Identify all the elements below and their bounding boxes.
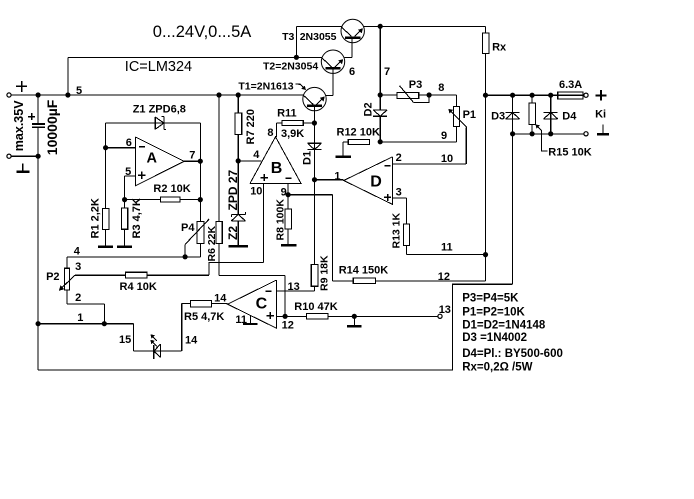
svg-text:P3: P3 xyxy=(409,79,422,91)
svg-text:Rx=0,2Ω /5W: Rx=0,2Ω /5W xyxy=(462,362,532,374)
svg-text:R11: R11 xyxy=(277,108,297,120)
svg-text:R6 22K: R6 22K xyxy=(206,225,218,261)
svg-text:R14 150K: R14 150K xyxy=(339,265,389,277)
svg-text:D3: D3 xyxy=(491,111,505,123)
svg-text:R5 4,7K: R5 4,7K xyxy=(184,311,224,323)
svg-text:D4=Pl.: BY500-600: D4=Pl.: BY500-600 xyxy=(462,348,563,360)
svg-text:A: A xyxy=(147,150,158,166)
svg-text:15: 15 xyxy=(119,334,131,346)
svg-text:11: 11 xyxy=(441,242,453,254)
svg-text:R1 2,2K: R1 2,2K xyxy=(90,198,102,238)
svg-text:7: 7 xyxy=(384,66,390,78)
svg-text:max.35V: max.35V xyxy=(12,100,26,151)
svg-text:2: 2 xyxy=(396,152,402,164)
svg-text:D3 =1N4002: D3 =1N4002 xyxy=(462,332,527,344)
svg-text:P4: P4 xyxy=(181,222,195,234)
svg-text:P3=P4=5K: P3=P4=5K xyxy=(462,293,519,305)
svg-text:3: 3 xyxy=(396,187,402,199)
svg-text:8: 8 xyxy=(438,82,444,94)
svg-text:Z1 ZPD6,8: Z1 ZPD6,8 xyxy=(133,104,186,116)
svg-text:12: 12 xyxy=(438,271,450,283)
svg-text:Rx: Rx xyxy=(492,41,507,53)
svg-text:R3 4,7K: R3 4,7K xyxy=(131,198,143,238)
svg-text:0...24V,0...5A: 0...24V,0...5A xyxy=(153,23,251,41)
svg-text:R12 10K: R12 10K xyxy=(337,127,380,139)
svg-text:13: 13 xyxy=(288,281,300,293)
svg-text:14: 14 xyxy=(185,334,198,346)
svg-text:10: 10 xyxy=(250,186,262,198)
svg-text:B: B xyxy=(271,160,283,177)
svg-text:6.3A: 6.3A xyxy=(559,79,582,91)
svg-text:4: 4 xyxy=(253,149,260,161)
svg-text:14: 14 xyxy=(214,292,227,304)
svg-text:6: 6 xyxy=(349,66,355,78)
svg-text:R8 100K: R8 100K xyxy=(274,199,286,241)
svg-text:T3: T3 xyxy=(282,31,294,43)
svg-text:1: 1 xyxy=(77,312,83,324)
svg-text:5: 5 xyxy=(125,166,131,178)
svg-text:D: D xyxy=(370,173,382,190)
svg-text:P1=P2=10K: P1=P2=10K xyxy=(462,306,525,318)
svg-text:9: 9 xyxy=(441,130,447,142)
svg-text:11: 11 xyxy=(235,314,247,326)
svg-text:D1=D2=1N4148: D1=D2=1N4148 xyxy=(462,319,546,331)
svg-text:IC=LM324: IC=LM324 xyxy=(125,59,192,75)
svg-text:Z2: Z2 xyxy=(226,226,240,240)
svg-text:D2: D2 xyxy=(363,102,375,116)
svg-text:R10 47K: R10 47K xyxy=(294,301,337,313)
svg-text:3,9K: 3,9K xyxy=(281,128,304,140)
svg-text:12: 12 xyxy=(282,320,294,332)
svg-text:10: 10 xyxy=(441,153,453,165)
svg-text:R7 220: R7 220 xyxy=(245,109,257,144)
svg-text:C: C xyxy=(256,295,268,312)
svg-text:2: 2 xyxy=(75,292,81,304)
svg-text:4: 4 xyxy=(74,246,81,258)
svg-text:2N3055: 2N3055 xyxy=(300,31,337,43)
svg-text:P2: P2 xyxy=(46,271,59,283)
svg-text:7: 7 xyxy=(189,150,195,162)
svg-text:10000µF: 10000µF xyxy=(44,99,60,155)
svg-text:13: 13 xyxy=(439,304,451,316)
svg-text:8: 8 xyxy=(267,127,273,139)
svg-text:9: 9 xyxy=(281,186,287,198)
svg-text:R9 18K: R9 18K xyxy=(319,255,331,291)
svg-text:3: 3 xyxy=(75,261,81,273)
svg-text:D4: D4 xyxy=(562,111,577,123)
svg-text:R4 10K: R4 10K xyxy=(120,281,157,293)
svg-text:T1=2N1613: T1=2N1613 xyxy=(238,81,293,93)
svg-text:R15 10K: R15 10K xyxy=(548,147,591,159)
svg-text:1: 1 xyxy=(334,170,340,182)
svg-text:R2 10K: R2 10K xyxy=(153,183,190,195)
svg-text:ZPD 27: ZPD 27 xyxy=(226,169,240,210)
svg-text:R13 1K: R13 1K xyxy=(391,212,403,248)
svg-text:6: 6 xyxy=(126,137,132,149)
svg-text:D1: D1 xyxy=(302,151,314,165)
svg-text:P1: P1 xyxy=(463,109,476,121)
svg-text:5: 5 xyxy=(76,85,82,97)
svg-text:T2=2N3054: T2=2N3054 xyxy=(263,61,318,73)
svg-text:Ki: Ki xyxy=(595,109,606,121)
